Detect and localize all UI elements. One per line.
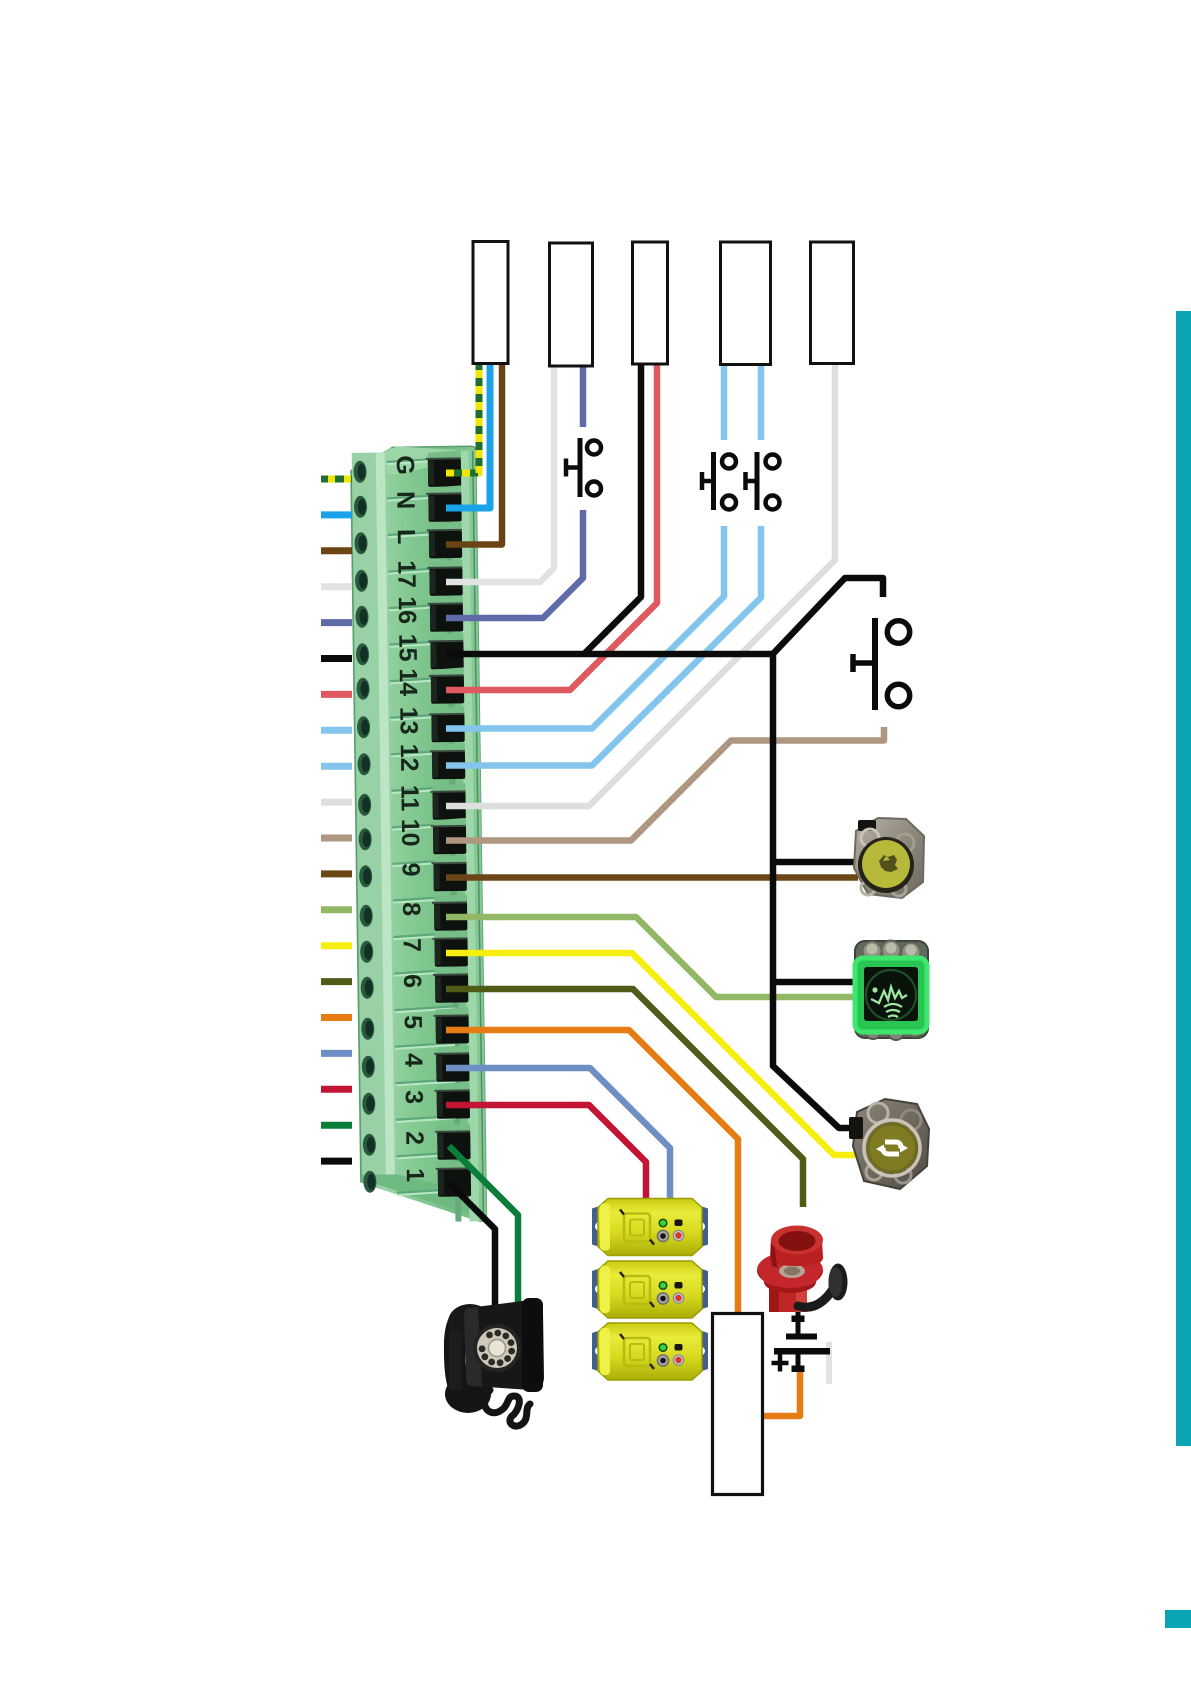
wire stub: terminal 15 [321, 655, 352, 662]
wire: black branch to button B2 [773, 979, 860, 986]
wire: terminal 14 (red) [446, 363, 657, 690]
teal sidebar [1176, 311, 1191, 1446]
wire: terminal 10 (taupe) [446, 727, 884, 841]
wire: terminal 6 (dark olive) [446, 989, 803, 1207]
connection box B4 [721, 242, 771, 365]
wire: terminal 15 black bus horizontal and vertical [446, 654, 851, 1128]
wire: battery positive to junction box (orange) [763, 1368, 800, 1416]
relay module M1 (yellow) [592, 1199, 708, 1256]
svg-text:14: 14 [394, 668, 422, 696]
svg-text:4: 4 [399, 1053, 427, 1067]
telephone P1 (black rotary, side view) [444, 1298, 544, 1426]
pushbutton switch S3 (box 4 left) [711, 452, 716, 510]
alarm bell LS1 (red siren with bracket) [757, 1226, 848, 1313]
wire: terminal 12 (light blue) lower segment [446, 526, 761, 766]
wire: terminal 16 (slate blue) lower segment [446, 510, 583, 618]
svg-text:16: 16 [393, 596, 421, 624]
wire stub: terminal L [321, 547, 352, 554]
wire stub: terminal 2 [321, 1122, 352, 1129]
wire stub: terminal 7 [321, 942, 352, 949]
wire: terminal 2 (green) [449, 1146, 518, 1307]
terminal block TB1 (20-way, labels G N L 17..1) [346, 443, 490, 1227]
wire: neutral N (blue) [446, 363, 490, 508]
svg-text:9: 9 [396, 862, 424, 876]
wire: terminal 9 (dark brown) [446, 874, 858, 881]
wire stub: terminal 17 [321, 583, 352, 590]
svg-text:N: N [391, 491, 419, 509]
wire: black branch to button B1 [773, 859, 856, 866]
wire stub: terminal 5 [321, 1014, 352, 1021]
wire: terminal 5 (orange) [446, 1030, 738, 1313]
wire: terminal 12 (light blue) upper segment [758, 363, 765, 440]
svg-text:12: 12 [395, 744, 423, 772]
wire: terminal 17 (white) [446, 363, 554, 582]
wire stub: terminal 13 [321, 727, 352, 734]
svg-text:5: 5 [399, 1015, 427, 1029]
wire stub: terminal 1 [321, 1158, 352, 1165]
wire stub: terminal 12 [321, 763, 352, 770]
wire: terminal 16 (slate blue) upper segment [580, 363, 587, 427]
wire stub: terminal 4 [321, 1050, 352, 1057]
pushbutton switch S2 (on slate wire of box 2) [578, 438, 583, 497]
wire: terminal 4 (blue-gray) [446, 1068, 670, 1198]
wire stub: terminal 6 [321, 978, 352, 985]
push button B3 (dark metal, olive face, white loop icon) [849, 1099, 929, 1189]
svg-text:13: 13 [394, 707, 422, 735]
svg-text:17: 17 [392, 560, 420, 588]
svg-text:1: 1 [401, 1168, 429, 1182]
teal page marker [1165, 1610, 1191, 1628]
wire: black branch to push button S5 [770, 578, 883, 657]
faded wire mark [826, 1342, 832, 1384]
connection box B5 [811, 242, 854, 364]
wire stub: terminal 16 [321, 619, 352, 626]
junction box B6 [713, 1314, 763, 1495]
wire stub: terminal N [321, 511, 352, 518]
svg-text:2: 2 [400, 1131, 428, 1145]
battery BT1 [772, 1305, 831, 1372]
wire: terminal 7 (yellow) [446, 953, 862, 1155]
wire stub: earth G (green/yellow) [321, 476, 352, 483]
svg-text:10: 10 [396, 819, 424, 847]
wire stub: terminal 14 [321, 691, 352, 698]
wire: terminal 11 (white) [446, 363, 835, 806]
wire stub: terminal 3 [321, 1086, 352, 1093]
svg-text:8: 8 [397, 902, 425, 916]
wire stub: terminal 8 [321, 906, 352, 913]
svg-text:11: 11 [395, 785, 423, 812]
svg-text:G: G [391, 455, 419, 475]
pushbutton switch S5 (black bus, right side) [872, 618, 878, 710]
svg-text:6: 6 [398, 974, 426, 988]
wire: terminal 1 (black) [449, 1183, 495, 1307]
relay module M2 (yellow) [592, 1261, 708, 1318]
wire: terminal 13 (light blue) lower segment [446, 526, 724, 729]
connection box B2 [550, 243, 593, 366]
svg-text:15: 15 [393, 634, 421, 662]
connection box B3 [633, 242, 668, 364]
push button B1 (metal, olive face, rotate icon) [854, 818, 924, 898]
svg-text:3: 3 [400, 1090, 428, 1104]
wire: terminal 8 (light green) [446, 917, 856, 997]
wire stub: terminal 9 [321, 870, 352, 877]
relay module M3 (yellow) [592, 1323, 708, 1380]
push button B2 (green illuminated screen) [855, 941, 928, 1041]
wire: line L (brown) [446, 363, 502, 545]
connection box B1 [473, 242, 508, 364]
wire: terminal 13 (light blue) upper segment [721, 363, 728, 440]
pushbutton switch S4 (box 4 right) [755, 452, 760, 510]
wire: terminal 3 (crimson) [446, 1105, 646, 1198]
wire: black from box3 joining bus [584, 363, 641, 654]
svg-text:7: 7 [398, 938, 426, 952]
svg-text:L: L [392, 529, 420, 545]
wire stub: terminal 11 [321, 799, 352, 806]
wire stub: terminal 10 [321, 835, 352, 842]
wire: earth to terminal G (green/yellow dashed) [446, 363, 479, 473]
